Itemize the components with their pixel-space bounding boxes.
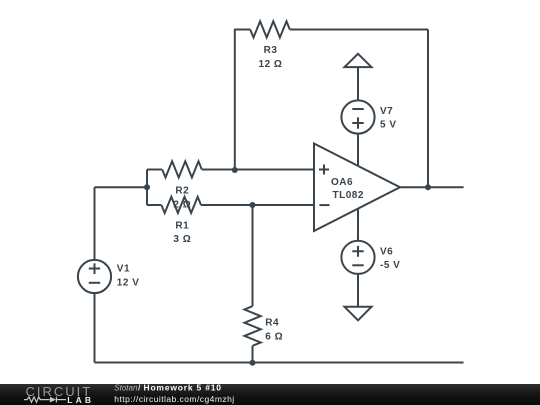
node input split junction <box>144 184 150 190</box>
wire R2 to noninverting input <box>202 169 314 171</box>
wire V6 to ground flag <box>357 274 359 307</box>
resistor R2 <box>162 161 202 177</box>
wire R1 to inverting input <box>201 204 314 206</box>
wire V7 to op-amp V+ pin <box>357 134 359 167</box>
label OA6 <box>331 177 353 188</box>
svg-text:V7: V7 <box>380 106 393 117</box>
label V7 value <box>380 120 397 131</box>
voltage source V6 <box>341 241 374 274</box>
wire V1 top lead <box>94 187 96 260</box>
logo CIRCUIT text <box>26 384 93 399</box>
svg-text:-5 V: -5 V <box>380 260 400 271</box>
node R4 bottom junction <box>250 360 256 366</box>
resistor R3 <box>250 21 290 37</box>
footer url line <box>114 394 234 404</box>
svg-text:R4: R4 <box>265 318 279 329</box>
svg-text:/: / <box>138 384 141 393</box>
svg-text:TL082: TL082 <box>333 190 364 201</box>
label V1 value <box>117 277 140 288</box>
voltage source V7 <box>341 100 374 133</box>
label R4 <box>265 318 279 329</box>
wire R4 bottom lead <box>252 346 254 363</box>
label R2 value <box>173 199 191 210</box>
wire op-amp V- pin to V6 <box>357 208 359 240</box>
node output junction <box>425 184 431 190</box>
resistor R4 <box>245 306 261 346</box>
svg-text:V6: V6 <box>380 246 393 257</box>
svg-text:R1: R1 <box>175 221 189 232</box>
footer bar <box>0 384 540 405</box>
voltage source V1 <box>78 260 111 293</box>
label TL082 <box>333 190 364 201</box>
label R1 value <box>173 234 191 245</box>
label R1 <box>175 221 189 232</box>
wire R1 left lead <box>147 204 161 206</box>
wire bottom rail <box>95 362 464 364</box>
svg-text:R2: R2 <box>175 186 189 197</box>
svg-text:Stotan: Stotan <box>114 384 138 393</box>
svg-text:6 Ω: 6 Ω <box>265 331 283 342</box>
wire V1 top to input split <box>95 186 148 188</box>
svg-text:12 Ω: 12 Ω <box>259 59 283 70</box>
power flag VEE <box>345 307 372 321</box>
node A junction (R3/R2 to noninverting input) <box>232 167 238 173</box>
wire R4 top lead <box>252 205 254 306</box>
label V6 <box>380 246 393 257</box>
op-amp OA6 <box>314 144 400 232</box>
wire V1 bottom lead <box>94 293 96 362</box>
logo LAB text <box>67 395 94 405</box>
svg-text:Homework 5 #10: Homework 5 #10 <box>144 384 222 393</box>
logo resistor-diode squiggle <box>24 397 66 403</box>
label V7 <box>380 106 393 117</box>
svg-text:12 V: 12 V <box>117 277 140 288</box>
svg-text:LAB: LAB <box>67 395 94 405</box>
label R2 <box>175 186 189 197</box>
label R4 value <box>265 331 283 342</box>
label R3 value <box>259 59 283 70</box>
wire right vertical (top to output node) <box>427 30 429 188</box>
wire VCC to V7 <box>357 67 359 100</box>
wire R2 left lead <box>147 169 162 171</box>
wire top-left vertical (R3 left lead down to R2 node) <box>234 30 236 170</box>
svg-text:http://circuitlab.com/cg4mzhj: http://circuitlab.com/cg4mzhj <box>114 394 234 404</box>
wire top horizontal right segment <box>290 29 428 31</box>
svg-text:OA6: OA6 <box>331 177 353 188</box>
power flag VCC <box>345 54 372 67</box>
svg-text:V1: V1 <box>117 264 130 275</box>
svg-text:5 V: 5 V <box>380 120 397 131</box>
svg-text:R3: R3 <box>264 45 278 56</box>
wire op-amp output <box>400 186 464 188</box>
footer title line <box>114 383 221 393</box>
label R3 <box>264 45 278 56</box>
wire top horizontal left segment <box>234 29 250 31</box>
wire input split vertical <box>146 170 148 206</box>
resistor R1 <box>161 197 201 213</box>
node R4 top junction <box>250 202 256 208</box>
svg-text:3 Ω: 3 Ω <box>173 234 191 245</box>
label V6 value <box>380 260 400 271</box>
label V1 <box>117 264 130 275</box>
